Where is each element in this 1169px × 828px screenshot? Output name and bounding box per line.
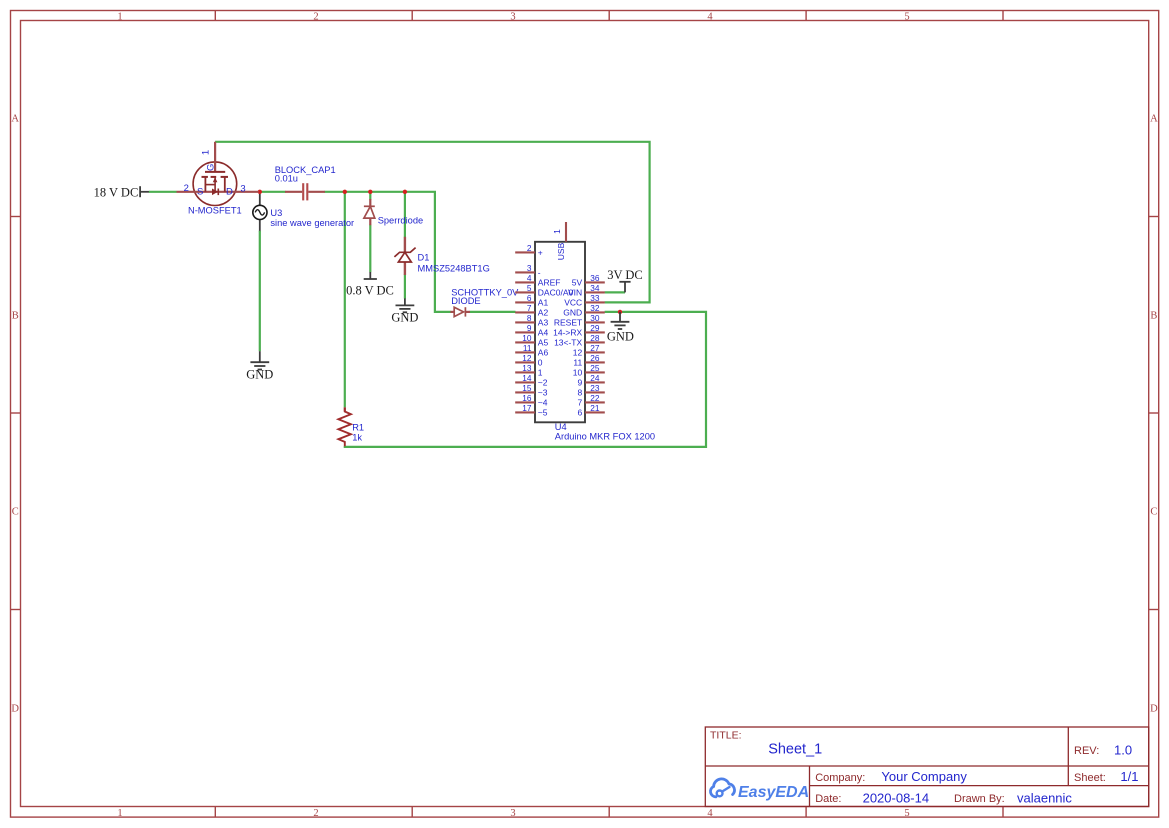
N-MOSFET1 pin numbers and pin names — [184, 150, 246, 198]
svg-text:GND: GND — [563, 307, 582, 317]
svg-text:12: 12 — [573, 347, 583, 357]
net flag 3V DC — [607, 268, 643, 293]
svg-text:11: 11 — [523, 343, 532, 353]
svg-text:~2: ~2 — [538, 377, 548, 387]
svg-text:DIODE: DIODE — [451, 296, 480, 306]
svg-text:26: 26 — [590, 353, 600, 363]
svg-text:33: 33 — [590, 293, 600, 303]
wire U4 pin34 VIN to 3V_DC flag — [605, 291, 625, 293]
svg-text:2: 2 — [527, 243, 532, 253]
svg-text:5: 5 — [904, 808, 909, 819]
wire main rail segment cap-left — [259, 191, 286, 193]
transistor N-MOSFET1 — [177, 142, 259, 206]
svg-text:4: 4 — [707, 11, 713, 22]
svg-text:29: 29 — [590, 323, 600, 333]
svg-text:9: 9 — [577, 377, 582, 387]
svg-text:A: A — [1150, 114, 1158, 125]
svg-text:7: 7 — [577, 397, 582, 407]
svg-text:25: 25 — [590, 363, 600, 373]
svg-text:B: B — [1150, 310, 1157, 321]
svg-text:R1: R1 — [352, 423, 364, 433]
svg-text:1: 1 — [538, 367, 543, 377]
U4 left pins with pin numbers and names — [515, 243, 573, 418]
svg-text:3: 3 — [527, 263, 532, 273]
svg-text:21: 21 — [590, 403, 600, 413]
svg-text:13: 13 — [522, 363, 532, 373]
svg-text:8: 8 — [527, 313, 532, 323]
svg-text:EasyEDA: EasyEDA — [738, 784, 809, 801]
wire U3 branch down to ground — [259, 193, 261, 351]
svg-text:18 V DC: 18 V DC — [94, 185, 139, 199]
svg-text:N-MOSFET1: N-MOSFET1 — [188, 205, 242, 215]
resistor R1 — [338, 407, 351, 446]
svg-text:3: 3 — [510, 11, 515, 22]
svg-text:Date:: Date: — [815, 793, 841, 805]
svg-text:32: 32 — [590, 303, 600, 313]
svg-text:A6: A6 — [538, 347, 549, 357]
svg-text:0.8 V DC: 0.8 V DC — [346, 283, 394, 297]
svg-text:D: D — [11, 703, 19, 714]
wire Sperrdiode branch down to 0.8V flag — [369, 192, 371, 272]
svg-text:Sperrdiode: Sperrdiode — [378, 215, 423, 225]
svg-text:2020-08-14: 2020-08-14 — [863, 791, 930, 806]
svg-text:17: 17 — [522, 403, 532, 413]
svg-text:~4: ~4 — [538, 397, 548, 407]
svg-text:15: 15 — [522, 383, 532, 393]
title block texts — [710, 730, 1138, 806]
title block — [705, 727, 1148, 807]
capacitor BLOCK_CAP1 — [285, 183, 325, 200]
svg-text:Your Company: Your Company — [881, 769, 967, 784]
svg-text:Company:: Company: — [815, 772, 865, 784]
svg-text:2: 2 — [184, 183, 189, 194]
U4 right pins with pin numbers and names — [553, 273, 605, 418]
svg-text:24: 24 — [590, 373, 600, 383]
svg-text:22: 22 — [590, 393, 600, 403]
svg-text:3V DC: 3V DC — [607, 268, 643, 282]
diode Sperrdiode — [364, 199, 375, 225]
ground (D1) — [391, 298, 418, 324]
svg-text:14->RX: 14->RX — [553, 327, 582, 337]
svg-text:1: 1 — [117, 11, 122, 22]
svg-text:GND: GND — [391, 311, 418, 325]
svg-text:sine wave generator: sine wave generator — [270, 218, 354, 228]
ground (U3) — [246, 351, 273, 381]
svg-text:B: B — [12, 310, 19, 321]
svg-text:0: 0 — [538, 357, 543, 367]
EasyEDA logo — [710, 779, 809, 801]
net flag 0.8 V DC — [346, 272, 394, 297]
svg-text:VIN: VIN — [568, 287, 582, 297]
svg-text:VCC: VCC — [564, 297, 582, 307]
svg-text:G: G — [206, 164, 217, 171]
svg-text:~5: ~5 — [538, 407, 548, 417]
svg-text:4: 4 — [707, 808, 713, 819]
junction (370.3,191.8) — [368, 190, 372, 194]
wire net 18V_DC to MOSFET pin2 — [140, 191, 176, 193]
op-amp/IC U4 Arduino MKR FOX 1200 body — [535, 242, 585, 422]
svg-text:36: 36 — [590, 273, 600, 283]
svg-text:-: - — [538, 267, 541, 277]
wire D1 branch down to ground — [404, 192, 406, 299]
svg-text:Arduino MKR FOX 1200: Arduino MKR FOX 1200 — [555, 432, 655, 442]
svg-text:7: 7 — [527, 303, 532, 313]
svg-text:4: 4 — [527, 273, 532, 283]
junction (259.8,191.8) — [258, 190, 262, 194]
svg-text:10: 10 — [573, 367, 583, 377]
svg-text:8: 8 — [577, 387, 582, 397]
svg-text:valaennic: valaennic — [1017, 791, 1072, 806]
svg-text:D1: D1 — [418, 252, 430, 262]
svg-text:1k: 1k — [352, 433, 362, 443]
net flag 18 V DC — [94, 185, 141, 199]
svg-text:A: A — [11, 114, 19, 125]
svg-text:RESET: RESET — [554, 317, 582, 327]
svg-text:USB: USB — [556, 242, 566, 260]
svg-text:23: 23 — [590, 383, 600, 393]
svg-text:+: + — [538, 247, 543, 257]
svg-text:5V: 5V — [572, 277, 583, 287]
wire main rail segment cap-right to corner, down to schottky, to U4 pin7 — [324, 192, 515, 312]
svg-text:3: 3 — [510, 808, 515, 819]
svg-text:14: 14 — [522, 373, 532, 383]
ground (U4 pin32) — [607, 312, 634, 343]
svg-text:D: D — [226, 187, 233, 198]
svg-text:2: 2 — [313, 808, 318, 819]
svg-text:A3: A3 — [538, 317, 549, 327]
svg-text:C: C — [1150, 507, 1157, 518]
svg-text:A1: A1 — [538, 297, 549, 307]
diode SCHOTTKY_0V — [450, 307, 470, 316]
svg-text:A2: A2 — [538, 307, 549, 317]
svg-text:6: 6 — [577, 407, 582, 417]
svg-text:5: 5 — [904, 11, 909, 22]
junction (404.9,191.8) — [403, 190, 407, 194]
svg-text:U3: U3 — [270, 208, 282, 218]
svg-text:A4: A4 — [538, 327, 549, 337]
svg-text:Sheet_1: Sheet_1 — [768, 742, 822, 758]
svg-text:AREF: AREF — [538, 277, 561, 287]
svg-text:0.01u: 0.01u — [275, 174, 298, 184]
svg-text:GND: GND — [246, 368, 273, 382]
svg-text:11: 11 — [573, 357, 582, 367]
wire R1 branch: rail down through R1, bottom loop to U4 GND row — [345, 192, 706, 447]
svg-text:Drawn By:: Drawn By: — [954, 793, 1005, 805]
svg-text:30: 30 — [590, 313, 600, 323]
svg-text:A5: A5 — [538, 337, 549, 347]
wire gate rail: MOSFET pin1 to U4 VCC pin33 — [215, 142, 649, 303]
svg-text:1/1: 1/1 — [1120, 769, 1138, 784]
junction (620.0,311.9) — [618, 310, 622, 314]
svg-text:28: 28 — [590, 333, 600, 343]
svg-text:27: 27 — [590, 343, 600, 353]
junction (344.8,191.8) — [343, 190, 347, 194]
svg-text:REV:: REV: — [1074, 745, 1099, 757]
svg-text:1.0: 1.0 — [1114, 743, 1132, 758]
svg-text:34: 34 — [590, 283, 600, 293]
svg-text:1: 1 — [201, 150, 212, 155]
svg-text:MMSZ5248BT1G: MMSZ5248BT1G — [418, 263, 490, 273]
sine wave source U3 — [253, 205, 267, 219]
svg-text:S: S — [197, 187, 203, 198]
svg-text:1: 1 — [117, 808, 122, 819]
svg-text:6: 6 — [527, 293, 532, 303]
svg-text:13<-TX: 13<-TX — [554, 337, 582, 347]
svg-text:~3: ~3 — [538, 387, 548, 397]
svg-text:16: 16 — [522, 393, 532, 403]
svg-text:10: 10 — [522, 333, 532, 343]
svg-text:12: 12 — [522, 353, 532, 363]
U4 top pin 1 USB — [552, 222, 566, 260]
svg-text:C: C — [12, 507, 19, 518]
svg-text:2: 2 — [313, 11, 318, 22]
svg-text:Sheet:: Sheet: — [1074, 772, 1106, 784]
svg-text:3: 3 — [240, 184, 245, 195]
svg-text:D: D — [1150, 703, 1158, 714]
svg-text:1: 1 — [552, 229, 562, 234]
zener diode D1 — [394, 237, 415, 275]
svg-text:9: 9 — [527, 323, 532, 333]
svg-text:5: 5 — [527, 283, 532, 293]
svg-text:GND: GND — [607, 329, 634, 343]
svg-text:TITLE:: TITLE: — [710, 730, 742, 742]
